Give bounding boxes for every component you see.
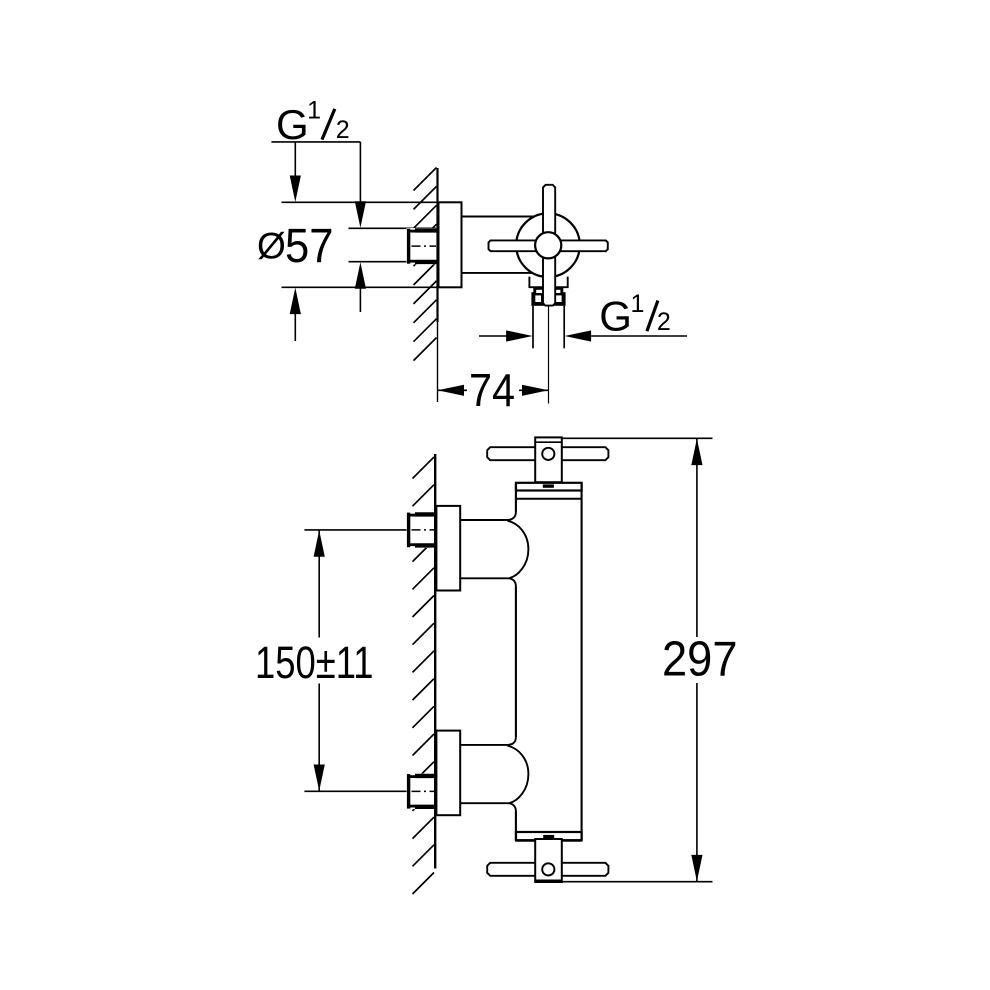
- top handle cross bar: [487, 447, 608, 460]
- wall line (top view): [436, 168, 438, 402]
- leader line from G 1/2 label: [271, 142, 366, 312]
- svg-text:57: 57: [285, 220, 334, 273]
- svg-text:2: 2: [336, 116, 350, 144]
- bottom handle hub: [535, 839, 562, 882]
- wall line (front view): [434, 454, 436, 869]
- extension lines 150±11: [304, 530, 406, 791]
- dimension line 150±11: [314, 530, 325, 791]
- label 150±11: [255, 637, 374, 688]
- dimension leader Ø57 escutcheon: [290, 142, 301, 341]
- svg-text:297: 297: [662, 631, 738, 686]
- body bottom cap tick: [543, 835, 554, 839]
- lower wall nipple (front view): [406, 774, 437, 810]
- cross-handle vertical bar (top view): [543, 185, 555, 306]
- svg-text:2: 2: [657, 308, 671, 336]
- bottom handle screw: [542, 863, 554, 875]
- escutcheon (top view): [439, 202, 462, 287]
- svg-text:Ø: Ø: [257, 225, 286, 266]
- label 297: [662, 631, 738, 686]
- dimension line 297: [691, 438, 702, 881]
- bottom handle cross bar: [487, 863, 608, 876]
- svg-text:G: G: [276, 101, 309, 148]
- threaded wall nipple (top view): [406, 228, 437, 264]
- mixer body tube edges: [516, 483, 582, 841]
- top handle hub: [535, 437, 562, 482]
- extension lines 297: [562, 438, 713, 881]
- wall hatching (front view): [413, 457, 435, 894]
- extension lines Ø57: [282, 202, 438, 287]
- lower union horn: [460, 737, 528, 811]
- top handle screw: [542, 448, 554, 460]
- svg-text:G: G: [599, 293, 632, 340]
- valve body circle: [516, 213, 580, 277]
- label G 1/2 (wall union thread, top view): [276, 96, 350, 147]
- svg-text:150±11: 150±11: [255, 637, 374, 688]
- body bottom cap: [516, 832, 582, 840]
- cross-handle horizontal bar (top view): [489, 240, 608, 251]
- nipple thread edge lines (top view): [349, 228, 437, 261]
- outlet pipe (G 1/2): [533, 306, 564, 349]
- body top cap: [516, 483, 582, 499]
- hose nut (black with facets): [531, 287, 565, 306]
- body top cap tick: [543, 484, 554, 487]
- svg-text:1: 1: [307, 96, 321, 124]
- svg-text:74: 74: [469, 364, 515, 416]
- label 74: [469, 364, 515, 416]
- label G 1/2 (outlet thread): [599, 290, 671, 339]
- upper union horn: [460, 512, 528, 587]
- svg-text:1: 1: [631, 290, 645, 318]
- upper wall nipple (front view): [406, 512, 437, 548]
- union body lines to valve: [462, 217, 537, 273]
- dimension 74 line: [438, 385, 549, 396]
- valve bonnet (open-top rect): [529, 277, 567, 288]
- wall hatching (top view): [414, 168, 437, 361]
- handle hub circle (top view): [535, 232, 561, 258]
- outlet pipe centerline: [548, 307, 550, 404]
- lower escutcheon (front view): [436, 731, 460, 816]
- upper escutcheon (front view): [436, 506, 460, 591]
- label Ø 57: [257, 220, 334, 273]
- dimension G 1/2 outlet: [479, 330, 687, 341]
